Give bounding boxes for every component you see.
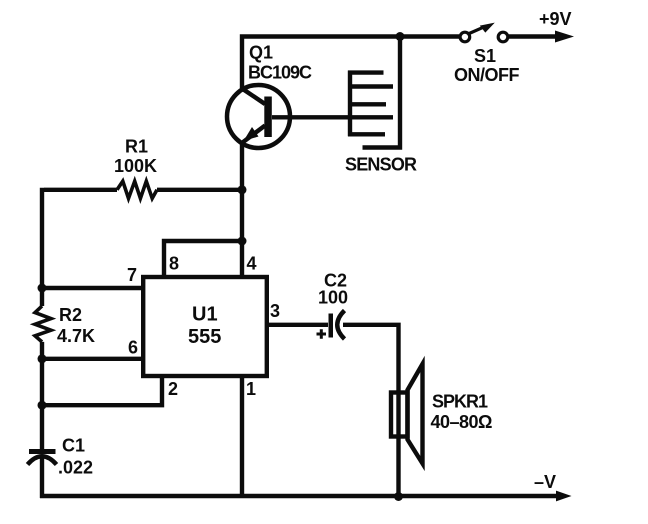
resistor R2 — [35, 306, 51, 342]
svg-text:555: 555 — [188, 326, 221, 348]
wire pin 7 to left rail — [42, 286, 143, 290]
wire pin 3 to C2 — [267, 323, 328, 327]
op-amp timer U1 555 IC body — [143, 277, 267, 376]
svg-text:C1: C1 — [62, 436, 85, 456]
svg-text:4.7K: 4.7K — [57, 326, 95, 346]
svg-text:U1: U1 — [192, 304, 218, 326]
svg-text:100: 100 — [318, 288, 348, 308]
wire bottom rail (-V) — [40, 494, 557, 498]
switch S1 — [460, 23, 508, 42]
svg-text:1: 1 — [246, 379, 256, 399]
wire left rail below R2 down to C1 — [40, 342, 44, 449]
svg-text:3: 3 — [270, 301, 280, 321]
capacitor C2 — [317, 311, 345, 340]
wire C2 to speaker — [343, 325, 399, 392]
node junction dot pin6/left rail — [38, 354, 47, 363]
sensor (touch plate comb) — [348, 37, 400, 148]
svg-text:40–80Ω: 40–80Ω — [431, 412, 493, 432]
svg-text:4: 4 — [247, 254, 257, 274]
speaker SPKR1 — [391, 364, 423, 496]
svg-text:SPKR1: SPKR1 — [432, 392, 488, 412]
wire pin 4 into IC — [240, 241, 244, 277]
wire Q1 emitter down to R1/pin4 rail — [240, 141, 244, 243]
wire pin 2 to left rail — [42, 376, 162, 405]
svg-text:–V: –V — [534, 472, 556, 492]
node junction dot pin7/left rail — [38, 284, 47, 293]
wire Q1 base to sensor — [272, 115, 349, 119]
svg-text:SENSOR: SENSOR — [345, 155, 417, 175]
svg-text:ON/OFF: ON/OFF — [454, 65, 519, 85]
svg-text:S1: S1 — [474, 46, 496, 66]
node junction dot pin2/left rail — [38, 401, 47, 410]
wire top rail from Q1 collector corner to switch S1 — [242, 37, 459, 90]
node junction dot at sensor/top rail — [396, 32, 405, 41]
node junction dot speaker/bottom rail — [394, 492, 403, 501]
svg-text:+9V: +9V — [539, 9, 572, 29]
svg-text:8: 8 — [169, 254, 179, 274]
wire pin 1 down to bottom rail — [240, 376, 244, 496]
wire from S1 to +9V arrow — [508, 34, 557, 38]
svg-text:BC109C: BC109C — [248, 63, 312, 83]
svg-text:6: 6 — [128, 338, 138, 358]
node junction dot pin4 loop / rail — [238, 237, 247, 246]
node junction dot R1 / Q1 emitter rail — [238, 185, 247, 194]
svg-text:100K: 100K — [114, 156, 157, 176]
wire pin8/pin4 loop top — [164, 241, 242, 277]
svg-text:R1: R1 — [125, 137, 148, 157]
wire pin 6 to left rail — [42, 357, 143, 361]
-V arrow — [556, 491, 572, 502]
svg-text:7: 7 — [127, 265, 137, 285]
transistor Q1 — [227, 85, 290, 148]
svg-text:.022: .022 — [58, 458, 93, 478]
capacitor C1 — [28, 449, 57, 465]
wire C1 to bottom rail — [40, 458, 44, 498]
svg-text:2: 2 — [168, 379, 178, 399]
svg-text:R2: R2 — [59, 305, 82, 325]
svg-text:Q1: Q1 — [249, 43, 273, 63]
resistor R1 — [44, 181, 240, 198]
+9V supply arrow — [555, 31, 574, 43]
wire left rail (R1 left end down to bottom rail) — [40, 188, 44, 306]
